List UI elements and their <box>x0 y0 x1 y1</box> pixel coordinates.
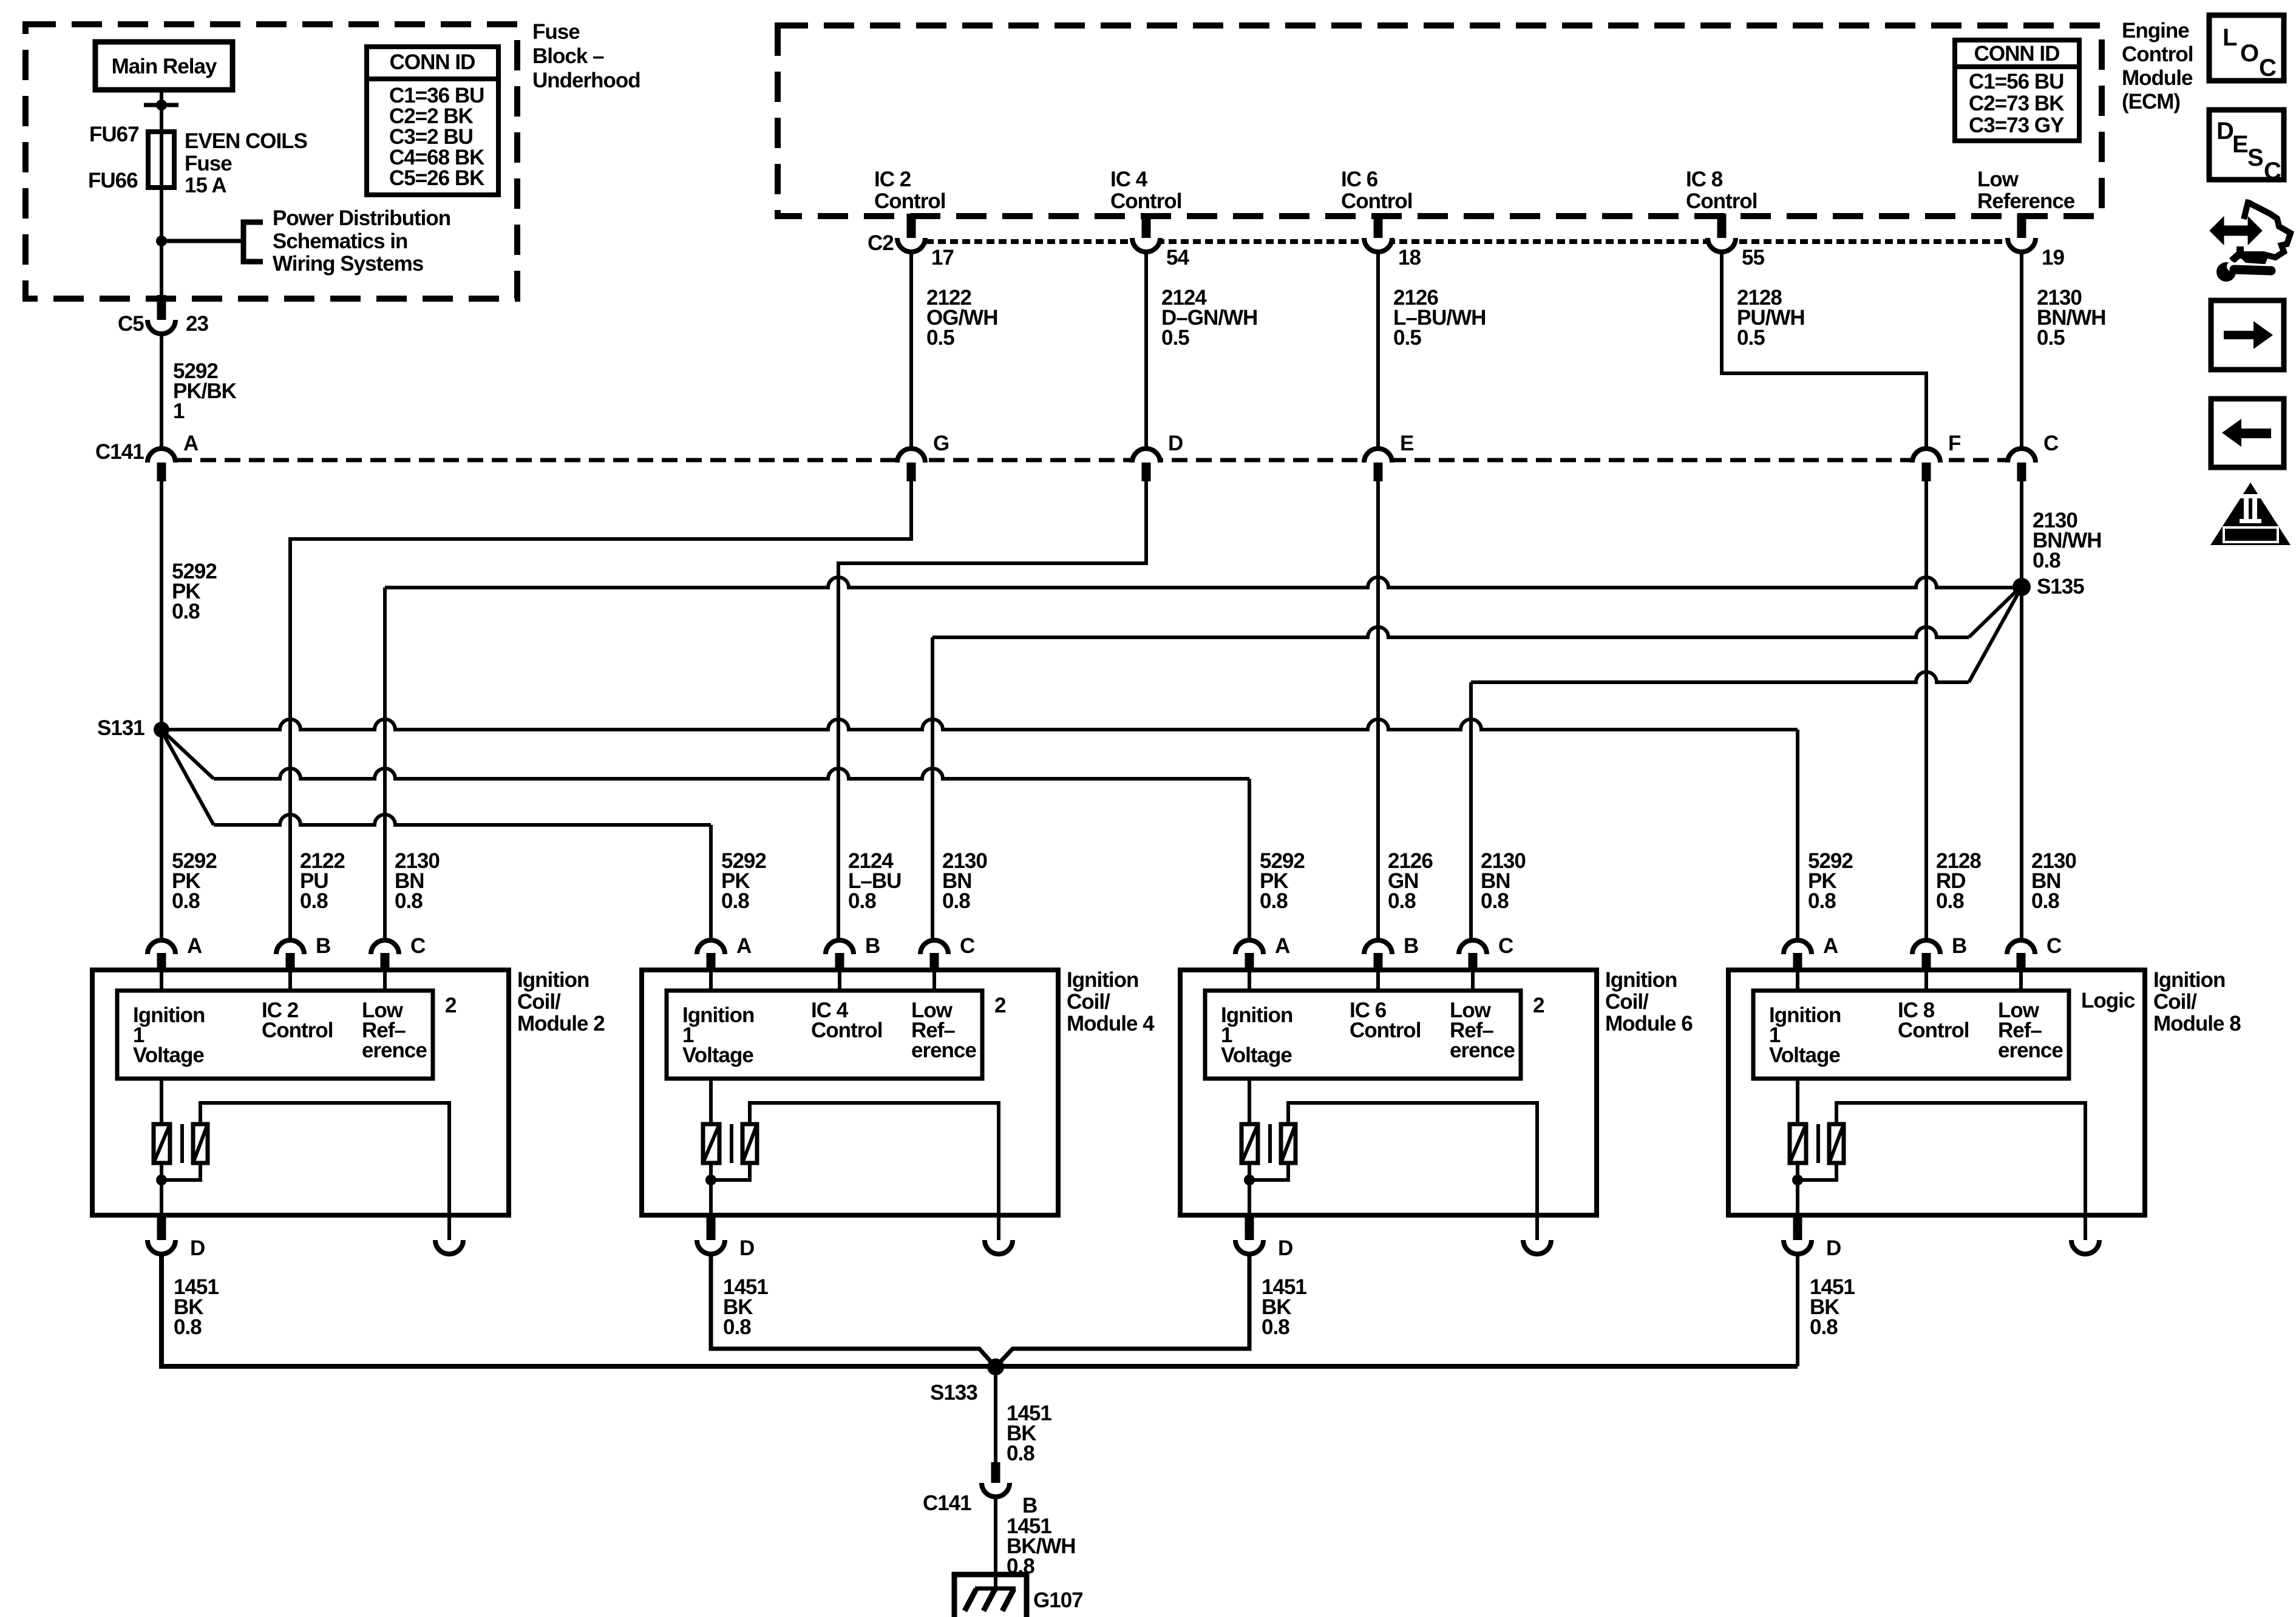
wire pin55 to C141-F (jog) <box>1722 251 1926 447</box>
module 8 inner block <box>1753 991 2069 1079</box>
ECM connector pin 18 <box>1374 214 1383 238</box>
module 6 internal wires <box>1248 970 1251 991</box>
C141 pin G <box>897 449 925 463</box>
svg-text:CONN ID: CONN ID <box>390 50 475 74</box>
previous page arrow icon <box>2211 399 2284 467</box>
svg-text:Control: Control <box>1341 189 1412 213</box>
svg-text:E: E <box>2232 131 2249 158</box>
svg-text:L: L <box>2223 24 2237 51</box>
module 8 coil primary <box>1796 1079 1799 1124</box>
svg-text:0.5: 0.5 <box>926 326 954 350</box>
module 6 inner block <box>1205 991 1521 1079</box>
ignition coil/module 4 <box>642 970 1058 1215</box>
module 6 coil core <box>1268 1124 1272 1163</box>
svg-text:C5: C5 <box>118 312 144 336</box>
svg-text:G107: G107 <box>1033 1588 1083 1612</box>
splice S135 <box>2012 578 2031 596</box>
svg-text:0.8: 0.8 <box>1810 1315 1838 1339</box>
svg-text:C2=73 BK: C2=73 BK <box>1969 92 2064 115</box>
svg-text:Coil/: Coil/ <box>1605 990 1649 1014</box>
svg-text:D: D <box>1278 1236 1292 1260</box>
wire pin18 to C141-E <box>1376 251 1380 447</box>
svg-text:54: 54 <box>1166 246 1189 269</box>
LOC icon <box>2209 15 2284 81</box>
svg-text:S: S <box>2247 144 2264 171</box>
svg-text:19: 19 <box>2042 246 2064 269</box>
module 4 coil secondary <box>742 1124 757 1163</box>
connector C141 dashed line <box>176 458 2023 463</box>
svg-text:Ignition: Ignition <box>1605 968 1677 992</box>
svg-text:S135: S135 <box>2037 575 2084 598</box>
ECM connector pin 55 <box>1717 214 1727 238</box>
svg-text:(ECM): (ECM) <box>2122 90 2180 114</box>
module 4 pin D <box>707 1215 716 1240</box>
module 2 inner block <box>117 991 433 1079</box>
CONN ID table (ECM) <box>1955 40 2079 141</box>
svg-text:OBD II: OBD II <box>2230 527 2271 542</box>
svg-text:0.8: 0.8 <box>1808 889 1836 913</box>
svg-text:C: C <box>2264 158 2281 185</box>
svg-text:Block –: Block – <box>532 44 604 68</box>
svg-text:0.8: 0.8 <box>1260 889 1288 913</box>
svg-text:0.5: 0.5 <box>1393 326 1421 350</box>
svg-text:IC 4: IC 4 <box>1110 168 1148 191</box>
module 4 coil core <box>730 1124 733 1163</box>
svg-text:EVEN COILS: EVEN COILS <box>185 129 307 153</box>
module 8 internal wires <box>1796 970 1799 991</box>
wire pin19 to C141-C <box>2020 251 2023 447</box>
svg-text:E: E <box>1400 432 1413 455</box>
svg-text:Control: Control <box>1350 1019 1421 1042</box>
svg-text:Coil/: Coil/ <box>517 990 561 1014</box>
svg-text:D: D <box>1826 1236 1841 1260</box>
module 2 coil junction <box>156 1175 167 1185</box>
fuse block - underhood box <box>25 24 517 299</box>
module 6 pin A <box>1235 940 1263 954</box>
svg-text:C1=56 BU: C1=56 BU <box>1969 70 2063 93</box>
svg-text:Wiring Systems: Wiring Systems <box>273 252 424 276</box>
svg-text:Control: Control <box>262 1019 333 1042</box>
svg-text:C: C <box>1498 934 1513 958</box>
svg-text:D: D <box>739 1236 754 1260</box>
main relay <box>95 42 233 90</box>
power distribution reference bracket <box>161 239 243 243</box>
module 6 spark output pin <box>1535 1215 1539 1240</box>
svg-text:0.8: 0.8 <box>172 600 200 623</box>
module 6 coil junction <box>1244 1175 1255 1185</box>
svg-text:0.5: 0.5 <box>1737 326 1765 350</box>
svg-text:0.8: 0.8 <box>1007 1442 1034 1465</box>
svg-text:S133: S133 <box>930 1381 977 1405</box>
svg-text:Fuse: Fuse <box>185 152 232 175</box>
svg-text:Main Relay: Main Relay <box>112 55 217 78</box>
splice S133 <box>987 1358 1004 1375</box>
module 4 pin C <box>920 940 948 954</box>
connector C141 pin B <box>991 1462 1000 1483</box>
svg-text:Ignition: Ignition <box>517 968 589 992</box>
svg-text:0.8: 0.8 <box>1481 889 1509 913</box>
svg-text:C141: C141 <box>95 440 144 464</box>
svg-text:Voltage: Voltage <box>682 1043 753 1067</box>
svg-text:2: 2 <box>994 994 1006 1017</box>
module 2 pin D <box>157 1215 166 1240</box>
module 8 pin B <box>1912 940 1940 954</box>
svg-text:IC 6: IC 6 <box>1341 168 1378 191</box>
svg-text:Schematics in: Schematics in <box>273 229 407 253</box>
module 4 spark output pin <box>997 1215 1000 1240</box>
module 4 pin B <box>826 940 854 954</box>
svg-text:O: O <box>2240 40 2259 67</box>
C141 pin E <box>1364 449 1392 463</box>
svg-text:0.8: 0.8 <box>395 889 423 913</box>
ECM connector pin 17 <box>907 214 916 238</box>
svg-text:D: D <box>1168 432 1183 455</box>
svg-text:2: 2 <box>445 994 457 1017</box>
svg-text:erence: erence <box>1450 1039 1515 1062</box>
svg-text:B: B <box>865 934 880 958</box>
module 8 coil secondary <box>1829 1124 1844 1163</box>
svg-text:23: 23 <box>186 312 208 336</box>
svg-text:Coil/: Coil/ <box>2153 990 2197 1014</box>
module 4 internal wires <box>709 970 713 991</box>
svg-text:Control: Control <box>2122 42 2193 66</box>
svg-text:Engine: Engine <box>2122 19 2189 42</box>
svg-text:D: D <box>2216 118 2234 144</box>
module 2 spark output pin <box>447 1215 451 1240</box>
module 8 coil junction <box>1792 1175 1803 1185</box>
svg-text:Module 8: Module 8 <box>2153 1012 2241 1036</box>
svg-text:IC 2: IC 2 <box>874 168 911 191</box>
svg-text:0.8: 0.8 <box>723 1315 751 1339</box>
svg-text:0.8: 0.8 <box>2031 889 2059 913</box>
svg-text:Fuse: Fuse <box>532 20 580 44</box>
wire S131 to module8 A (ignition feed bus) <box>161 719 1798 730</box>
svg-text:Low: Low <box>1977 168 2019 191</box>
svg-text:1: 1 <box>173 399 185 423</box>
svg-text:B: B <box>316 934 330 958</box>
svg-text:0.8: 0.8 <box>174 1315 202 1339</box>
module 8 pin D <box>1793 1215 1802 1240</box>
C141 pin C <box>2008 449 2036 463</box>
svg-text:CONN ID: CONN ID <box>1974 42 2060 66</box>
wire module2 D to S133 bus <box>161 1253 1798 1366</box>
ignition coil/module 6 <box>1180 970 1597 1215</box>
module 4 coil primary <box>709 1079 713 1124</box>
svg-text:Voltage: Voltage <box>1769 1043 1840 1067</box>
C141 pin D <box>1132 449 1160 463</box>
wire module6 D to S133 <box>996 1253 1249 1367</box>
engine control module (ECM) box <box>778 25 2102 216</box>
wire S133 to C141-B <box>994 1367 997 1462</box>
module 2 pin C <box>371 940 399 954</box>
module 6 pin D <box>1245 1215 1254 1240</box>
svg-text:Ignition: Ignition <box>2153 968 2225 992</box>
module 2 coil core <box>180 1124 184 1163</box>
wire module4 D to S133 <box>711 1253 996 1367</box>
ignition coil/module 8 <box>1728 970 2145 1215</box>
wire C141-E to module6 B <box>1376 481 1380 940</box>
svg-text:Coil/: Coil/ <box>1067 990 1110 1014</box>
svg-text:Underhood: Underhood <box>532 69 640 92</box>
C141 pin A <box>148 449 175 463</box>
module 8 spark output pin <box>2084 1215 2087 1240</box>
svg-text:Voltage: Voltage <box>1221 1043 1292 1067</box>
DESC icon <box>2209 110 2284 180</box>
svg-text:C2: C2 <box>868 231 894 255</box>
connector C5 pin 23 <box>157 295 166 320</box>
C141 pin F <box>1912 449 1940 463</box>
wire S135 to module2 C (low reference bus) <box>385 577 2013 588</box>
ground G107 <box>954 1575 1027 1617</box>
svg-text:Reference: Reference <box>1977 189 2075 213</box>
svg-text:Module 6: Module 6 <box>1605 1012 1693 1036</box>
wire module8 D to S133 bus <box>1796 1253 1799 1366</box>
svg-text:Voltage: Voltage <box>133 1043 204 1067</box>
svg-text:0.5: 0.5 <box>1161 326 1189 350</box>
module 8 pin C <box>2007 940 2035 954</box>
svg-text:0.8: 0.8 <box>300 889 328 913</box>
svg-text:F: F <box>1948 432 1961 455</box>
svg-text:A: A <box>1275 934 1290 958</box>
svg-text:S131: S131 <box>97 716 144 740</box>
wire S135 to module6 C <box>1969 595 2017 682</box>
ignition coil/module 2 <box>92 970 509 1215</box>
svg-text:FU67: FU67 <box>89 123 139 146</box>
wire S135 to module4 C <box>1969 592 2015 637</box>
splice S131 <box>154 722 169 737</box>
svg-text:0.8: 0.8 <box>172 889 200 913</box>
svg-text:IC 8: IC 8 <box>1686 168 1723 191</box>
module 8 pin A <box>1784 940 1812 954</box>
svg-text:erence: erence <box>911 1039 976 1062</box>
module 2 internal wires <box>160 970 163 991</box>
next page arrow icon <box>2211 300 2284 370</box>
module 2 coil secondary <box>193 1124 208 1163</box>
svg-text:Control: Control <box>1898 1019 1969 1042</box>
module 6 coil primary <box>1248 1079 1251 1124</box>
svg-text:Control: Control <box>1686 189 1757 213</box>
wire S131 to module6 A <box>165 733 214 779</box>
module 4 pin A <box>697 940 725 954</box>
svg-text:D: D <box>190 1236 205 1260</box>
module 2 pin A <box>148 940 175 954</box>
svg-text:Power Distribution: Power Distribution <box>273 206 450 230</box>
wire C141-A to S131 <box>160 481 163 730</box>
schematic navigation icon (arrows and wrench) <box>2210 200 2291 282</box>
module 2 coil primary <box>160 1079 163 1124</box>
fuse FU67/FU66 EVEN COILS 15 A <box>160 133 163 296</box>
wire C141-F to module8 B <box>1924 481 1928 940</box>
svg-text:0.5: 0.5 <box>2037 326 2065 350</box>
svg-text:C5=26 BK: C5=26 BK <box>389 166 484 190</box>
svg-text:A: A <box>187 934 202 958</box>
svg-text:Module 4: Module 4 <box>1067 1012 1155 1036</box>
svg-text:C: C <box>410 934 426 958</box>
ECM C2 connector dashed line <box>926 239 2035 244</box>
wire S131 to module2 A <box>160 730 163 940</box>
svg-text:B: B <box>1952 934 1966 958</box>
module 4 coil junction <box>705 1175 716 1185</box>
svg-text:C141: C141 <box>923 1491 971 1515</box>
svg-text:Module 2: Module 2 <box>517 1012 605 1036</box>
svg-text:0.8: 0.8 <box>1388 889 1416 913</box>
svg-text:0.8: 0.8 <box>2033 549 2060 572</box>
splice bar below main relay <box>144 103 178 107</box>
svg-text:0.8: 0.8 <box>942 889 970 913</box>
wire C141-B to G107 <box>994 1496 997 1592</box>
wire pin17 to C141-G <box>909 251 913 447</box>
svg-text:Module: Module <box>2122 66 2193 90</box>
module 2 pin B <box>276 940 304 954</box>
wire C141-D to module4 B <box>838 481 1146 940</box>
wire S131 to module4 A <box>164 735 214 825</box>
CONN ID table (fuse block) <box>367 47 498 195</box>
svg-text:0.8: 0.8 <box>721 889 749 913</box>
ECM connector pin 54 <box>1142 214 1151 238</box>
OBD II icon <box>2210 483 2291 545</box>
svg-text:C: C <box>2046 934 2062 958</box>
svg-text:A: A <box>736 934 752 958</box>
svg-text:B: B <box>1404 934 1418 958</box>
wire C141-C to S135 and module8 C <box>2020 481 2023 940</box>
wire pin54 to C141-D <box>1144 251 1148 447</box>
svg-text:17: 17 <box>931 246 954 269</box>
svg-text:18: 18 <box>1398 246 1421 269</box>
svg-text:erence: erence <box>362 1039 427 1062</box>
svg-text:2: 2 <box>1533 994 1544 1017</box>
module 6 pin C <box>1459 940 1487 954</box>
svg-text:Control: Control <box>874 189 945 213</box>
module 6 coil secondary <box>1281 1124 1296 1163</box>
svg-text:Logic: Logic <box>2081 989 2135 1012</box>
wire C141-G to module2 B <box>290 481 911 940</box>
svg-text:0.8: 0.8 <box>848 889 876 913</box>
module 4 inner block <box>667 991 982 1079</box>
svg-text:FU66: FU66 <box>88 169 138 192</box>
svg-text:Control: Control <box>811 1019 882 1042</box>
svg-text:15 A: 15 A <box>185 174 226 197</box>
svg-text:0.8: 0.8 <box>1262 1315 1289 1339</box>
ECM connector pin 19 <box>2017 214 2026 238</box>
svg-text:55: 55 <box>1742 246 1764 269</box>
svg-text:0.8: 0.8 <box>1936 889 1964 913</box>
svg-text:C: C <box>2043 432 2059 455</box>
module 8 coil core <box>1816 1124 1820 1163</box>
svg-text:Ignition: Ignition <box>1067 968 1138 992</box>
wire C5 to C141-A <box>160 333 163 447</box>
svg-text:erence: erence <box>1998 1039 2063 1062</box>
wire main relay to fuse <box>160 90 163 133</box>
svg-text:A: A <box>1823 934 1838 958</box>
svg-text:G: G <box>933 432 949 455</box>
svg-text:C: C <box>960 934 975 958</box>
module 6 pin B <box>1364 940 1392 954</box>
svg-text:Control: Control <box>1110 189 1181 213</box>
svg-text:C3=73 GY: C3=73 GY <box>1969 114 2064 137</box>
svg-text:A: A <box>183 432 199 455</box>
svg-text:C: C <box>2259 55 2277 81</box>
